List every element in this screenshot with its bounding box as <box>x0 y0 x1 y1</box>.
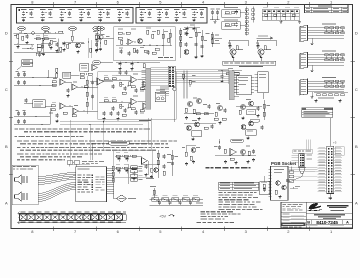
PGB internal transistors <box>276 181 280 185</box>
wires from pill <box>92 142 109 144</box>
revision history table <box>305 5 349 13</box>
svg-text:1: 1 <box>330 229 333 234</box>
block extra parts upper stage <box>129 82 131 86</box>
resistor array row 2 <box>325 59 329 61</box>
trimmer circuit cluster 4 with transistor Q101 <box>100 31 102 34</box>
capacitor pair C106 <box>117 9 123 10</box>
DSP main IC block U400 <box>76 167 107 202</box>
filter cell FL12 <box>107 214 114 221</box>
block B caps bottom <box>133 172 136 174</box>
notes table header box <box>219 182 259 190</box>
resistor array row 1 <box>325 54 329 56</box>
filter cell FL6 <box>59 214 66 221</box>
capacitor pair C104 <box>79 9 85 10</box>
svg-text:3: 3 <box>245 229 248 234</box>
capacitor pair C101 <box>21 9 27 10</box>
drawn-by rows text <box>283 212 290 215</box>
lower right cluster zone C <box>187 126 192 131</box>
ground symbol <box>311 69 313 71</box>
small parts below resistor column <box>293 187 294 188</box>
zone D extra wiring <box>14 52 62 54</box>
bottom filter strip rail top <box>18 212 127 214</box>
svg-text:A: A <box>346 220 349 225</box>
video connector wires to left <box>292 154 299 156</box>
feed wires from above to video area <box>306 140 308 150</box>
filter cell FL9 <box>83 214 90 221</box>
scale sheet row <box>308 224 318 227</box>
notes paragraph line 1 <box>15 128 19 129</box>
svg-text:5: 5 <box>159 229 162 234</box>
svg-text:7: 7 <box>74 0 77 5</box>
connector shell <box>300 26 308 42</box>
bus wires <box>308 54 345 56</box>
composite video header pins <box>299 154 305 167</box>
filter cell FL7 <box>67 214 74 221</box>
U400 right half text <box>96 176 100 179</box>
video connector kite symbol <box>299 167 305 173</box>
small network below caption <box>218 70 242 72</box>
input coupling caps row 3 <box>17 112 20 114</box>
bus wires <box>308 80 345 82</box>
oscillator circuit 2 loop <box>222 22 240 30</box>
gray bus bar 2 <box>229 71 234 100</box>
output network right of U100 <box>195 28 197 56</box>
parts right of U100: resistor ladder <box>180 30 182 34</box>
trimpot VR104 <box>97 27 105 31</box>
main control block U100 outline <box>114 27 176 61</box>
dual op-amp filter block outline <box>98 72 177 120</box>
trimmer circuit cluster 3 <box>72 31 74 36</box>
svg-text:A: A <box>355 201 358 206</box>
vertical dashes bundle near x90 <box>88 38 90 58</box>
left column owner text lines <box>283 203 287 206</box>
svg-text:4: 4 <box>202 0 205 5</box>
bus wires <box>308 27 345 29</box>
notes list item 1 <box>17 141 22 142</box>
svg-text:4: 4 <box>202 229 205 234</box>
IC box U302 tall <box>258 72 269 93</box>
resistor array row 1 <box>325 27 329 29</box>
zone D long vertical wire <box>43 33 45 53</box>
zone D row wire y33 <box>14 32 65 34</box>
filter cell FL10 <box>91 214 98 221</box>
capacitor pair C204 <box>192 9 198 10</box>
resistor ladder right of U400 <box>113 163 115 199</box>
zone tick marks right edge <box>350 60 355 62</box>
PGB socket box <box>271 166 289 200</box>
note final line <box>197 222 202 223</box>
cluster right of DSP <box>145 165 148 167</box>
signal pill label <box>109 141 130 145</box>
notes list item 3b <box>20 156 24 157</box>
decoupling capacitor bank box 2 <box>136 8 207 24</box>
left vertical chains outside block <box>87 76 89 114</box>
parts below U100 box <box>116 62 160 64</box>
parts above DSP block <box>67 161 73 165</box>
zone tick marks top edge <box>53 2 55 7</box>
header top power wire +5 <box>330 118 332 146</box>
trimpot VR102 <box>42 27 50 31</box>
oscillator circuit 1 loop <box>222 10 240 18</box>
supply filter capacitor lattice <box>262 9 300 11</box>
trimpot VR103 <box>69 27 77 31</box>
vertical wire bundle left <box>182 71 184 99</box>
mini filter end labels <box>196 202 203 205</box>
svg-text:6: 6 <box>117 229 120 234</box>
relay boxes K1 <box>22 60 33 63</box>
component column x131 <box>131 166 138 169</box>
filter cell FL14 end <box>123 215 126 221</box>
svg-text:D: D <box>5 31 8 36</box>
oscillator circuit 1 label <box>224 6 238 9</box>
resistor array row 1 <box>325 80 329 82</box>
mini filter left vertical part <box>154 188 156 198</box>
ground symbol <box>311 95 313 97</box>
left column rule lines <box>281 212 306 214</box>
svg-text:+5: +5 <box>333 141 337 145</box>
right column of filter block B <box>158 150 160 178</box>
filter block B outline <box>114 151 153 178</box>
notes list item 4 <box>17 159 20 160</box>
mixer cluster transistors left <box>188 102 193 107</box>
crystal box X1 <box>33 100 46 108</box>
connector shell <box>300 53 308 69</box>
header top-right bracket box <box>335 147 344 155</box>
input coupling caps row 1 <box>17 73 20 75</box>
lower right cluster 2 zone C <box>241 125 246 130</box>
zone D misc parts <box>48 43 51 45</box>
capacitor pair C103 <box>59 9 65 10</box>
svg-text:8410-7245: 8410-7245 <box>316 220 338 226</box>
trimpot VR101 <box>18 27 26 31</box>
array vertical interconnects <box>325 56 327 59</box>
caption strip box <box>223 61 276 65</box>
vertical component chain 2 <box>252 7 254 23</box>
speaker SP1 <box>15 175 22 184</box>
mixer cluster middle <box>218 106 223 111</box>
tap capacitor near +V <box>38 53 41 55</box>
svg-text:C: C <box>355 87 358 92</box>
input coupling caps row 2 <box>17 81 20 83</box>
svg-text:5: 5 <box>159 0 162 5</box>
left column bottom row <box>283 226 288 229</box>
network row 1 <box>116 155 120 157</box>
far right components column <box>264 100 266 120</box>
wire bundle from bus to right section <box>151 67 169 69</box>
svg-text:2: 2 <box>287 229 290 234</box>
left column dark approval bar <box>281 223 305 226</box>
op-amp stage A2 cluster <box>60 79 65 85</box>
company name dark text BROAD GENERATOR <box>327 205 349 206</box>
filter stage upper: triangles and resistors <box>104 78 108 80</box>
notes paragraph line 3 <box>15 136 18 137</box>
title block outline <box>281 202 352 228</box>
title area rule under logo <box>306 212 352 214</box>
filter cell FL3 <box>35 214 42 221</box>
filter cell FL8 <box>75 214 82 221</box>
svg-text:+5V: +5V <box>159 214 167 219</box>
small box right of notes <box>260 182 270 195</box>
caps bottom of block <box>103 112 106 114</box>
composite video label <box>293 150 313 153</box>
header pin wires left with net labels <box>318 148 327 150</box>
capacitor pair C203 <box>174 9 180 10</box>
mini filter caps <box>158 201 161 203</box>
notes bullet lines <box>219 192 223 193</box>
svg-text:B: B <box>307 220 310 225</box>
small parts below bank box 2 <box>184 27 200 29</box>
vertical interconnect wires left half <box>69 120 71 164</box>
svg-text:8: 8 <box>31 0 34 5</box>
mini panel table <box>302 108 333 118</box>
mini filter chain <box>150 199 204 201</box>
svg-text:7: 7 <box>74 229 77 234</box>
header pin wires right with net labels <box>334 148 342 150</box>
filter cell FL11 <box>99 214 106 221</box>
speaker SP2 wiring harness <box>38 183 76 194</box>
latch diamond flag <box>117 195 127 202</box>
amplifier test caption text <box>206 167 210 169</box>
speaker box header text <box>13 166 16 167</box>
decoupling capacitor bank box 1 <box>17 8 134 24</box>
PGB socket left pin stubs <box>269 168 272 170</box>
transistor cluster zone B left <box>191 148 196 153</box>
ground symbol <box>311 42 313 44</box>
header right small labels <box>307 154 313 157</box>
connector shell <box>300 79 308 95</box>
svg-text:3: 3 <box>245 0 248 5</box>
svg-text:1: 1 <box>330 0 333 5</box>
svg-text:6: 6 <box>117 0 120 5</box>
bulk capacitors C301 C302 right of bank <box>211 11 214 13</box>
strip junction dots <box>19 217 20 218</box>
speaker SP2 <box>15 192 22 201</box>
resistor array row 2 <box>325 32 329 34</box>
svg-text:C: C <box>5 87 8 92</box>
labels right of bundle <box>160 86 169 89</box>
trimmer circuit cluster 2 <box>34 38 56 40</box>
dark dual-row connector column <box>168 66 175 87</box>
title text lines centered <box>314 214 345 215</box>
sheet border frame <box>11 5 353 229</box>
input coupling caps row 4 <box>17 120 20 122</box>
bias ladder <box>212 32 214 47</box>
resistor column left of big header <box>289 171 293 174</box>
parts x170 column <box>172 150 174 176</box>
title block vertical divider <box>305 202 307 228</box>
xfmr box <box>63 72 71 78</box>
filter stage lower: triangles and resistors <box>104 100 108 102</box>
caption second line <box>239 66 263 67</box>
driver transistor loop 2 Q202 <box>257 40 276 49</box>
oscillator circuit 2 label <box>224 18 238 21</box>
op-amp stage B cluster <box>60 103 65 109</box>
driver transistor loop 1 Q201 <box>229 40 248 49</box>
filter cell FL1 <box>20 214 27 221</box>
wire row 1 <box>14 77 56 79</box>
extra parts cluster 2-3 gap <box>56 43 59 45</box>
zone tick marks bottom edge <box>53 226 55 231</box>
wires from bus bar down to lower section <box>148 118 150 143</box>
svg-text:8: 8 <box>31 229 34 234</box>
strip left end arrows <box>18 212 21 215</box>
horizontal wires below filter block <box>60 121 148 123</box>
op-amp stage A1 <box>80 64 89 72</box>
vertical bus bar shaded <box>146 68 151 109</box>
notes paragraph line 2 <box>24 131 28 132</box>
input op-amp triangle left <box>97 78 103 85</box>
trimmer circuit cluster 1 <box>17 34 19 38</box>
network row 2 <box>116 167 120 169</box>
zone tick marks left edge <box>9 60 13 62</box>
connector tail circle <box>173 87 176 90</box>
U100 internal parts <box>118 32 122 34</box>
input oval VR105 and caps left of U100 <box>93 26 101 31</box>
lattice labels <box>263 6 268 9</box>
size-dwg-rev row rules <box>306 219 352 221</box>
filter cell FL13 <box>115 214 122 221</box>
capacitor pair C102 <box>40 9 46 10</box>
capacitor pair C105 <box>98 9 104 10</box>
svg-text:2: 2 <box>287 0 290 5</box>
IC box U301 <box>237 75 252 95</box>
array vertical interconnects <box>325 82 327 85</box>
notes list item 2 <box>17 147 21 148</box>
big dual-row pin header J1 <box>327 146 334 193</box>
svg-text:D: D <box>355 31 358 36</box>
mixer cluster right transistors <box>241 105 246 110</box>
capacitor pair C201 <box>139 9 145 10</box>
U400 internal label text rows <box>78 175 82 176</box>
amplifier test circuit <box>219 139 221 144</box>
block extra parts lower stage <box>129 104 131 108</box>
array vertical interconnects <box>325 29 327 32</box>
speaker assembly box outline <box>12 165 38 205</box>
input resistor ladder <box>56 68 58 72</box>
vertical ladder resistors <box>182 74 184 78</box>
capacitor pair C202 <box>157 9 163 10</box>
resistor array row 2 <box>325 85 329 87</box>
relay box with circles <box>155 92 166 102</box>
U400 right pin wires <box>107 168 114 170</box>
bottom filter strip rail bottom <box>18 222 127 224</box>
svg-text:B: B <box>355 144 358 149</box>
block 3 lower resistor row <box>317 94 321 96</box>
notes list item 2b <box>20 150 24 151</box>
vertical component chain 1 <box>246 7 248 36</box>
filter cell FL4 <box>43 214 50 221</box>
company address Irvine CA <box>330 210 344 211</box>
svg-text:B: B <box>5 144 8 149</box>
signal flow arrow <box>257 37 274 39</box>
svg-text:PGB Socket: PGB Socket <box>271 161 297 166</box>
block B op amp <box>142 158 148 165</box>
notes list item 3 <box>17 153 23 154</box>
oval VR106 below <box>93 60 101 64</box>
filter cell FL5 <box>51 214 58 221</box>
header bottom ground tail <box>329 194 331 197</box>
svg-text:A: A <box>5 201 8 206</box>
company logo script <box>309 203 322 209</box>
U100 more internals <box>121 40 123 44</box>
zone D double rect box <box>37 44 41 47</box>
filter cell FL2 <box>27 214 34 221</box>
notes list item 1b <box>20 143 26 144</box>
speaker SP1 wiring harness <box>38 173 76 177</box>
PGB to header wires <box>288 167 318 169</box>
lattice ground <box>280 20 282 22</box>
wire row 2 <box>14 85 56 87</box>
U400 internal pin squares <box>92 175 94 176</box>
